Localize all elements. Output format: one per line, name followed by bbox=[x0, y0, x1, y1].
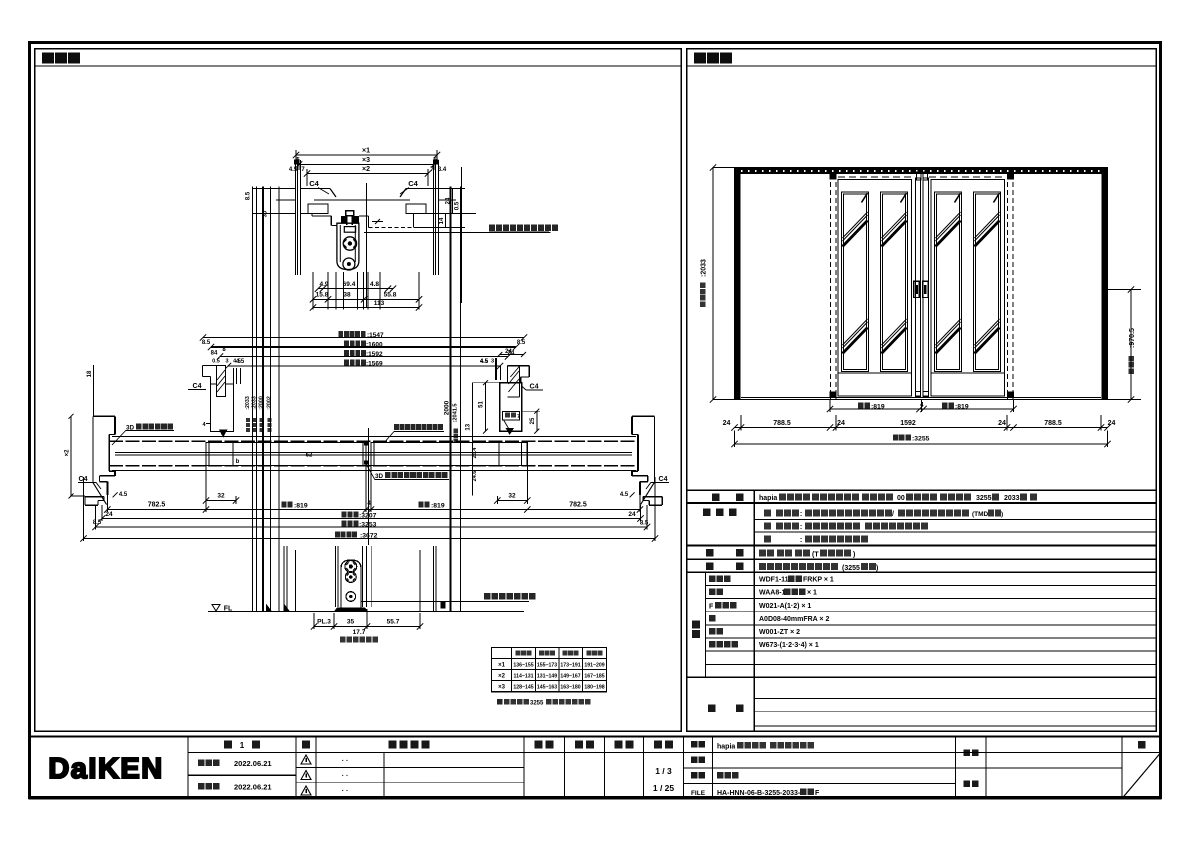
right jamb bottom step bbox=[632, 475, 648, 477]
left outside vertical dim bbox=[70, 416, 72, 496]
plan dim row 1 (leaf widths) bbox=[107, 509, 640, 511]
svg-text:): ) bbox=[876, 565, 878, 572]
warning triangles bbox=[301, 755, 311, 764]
svg-text:×1: ×1 bbox=[498, 663, 506, 669]
spec finish row 3 bbox=[764, 536, 771, 543]
flat rail base (dark) bbox=[334, 608, 368, 612]
spec row label: remarks bbox=[708, 705, 716, 713]
plan dim extension verticals bbox=[106, 495, 108, 512]
plan meeting stile lines bbox=[362, 443, 364, 466]
pocket edge right dashed lines bbox=[1007, 174, 1009, 400]
svg-text::3253: :3253 bbox=[359, 522, 377, 529]
title: approval header bbox=[535, 741, 543, 749]
left door leaf bottom rail line bbox=[838, 372, 912, 374]
floor guide wheel 2 bbox=[345, 572, 356, 583]
svg-text:17.7: 17.7 bbox=[353, 629, 366, 636]
top detail dim line *3 bbox=[299, 164, 434, 166]
adjustment range table bbox=[492, 648, 607, 692]
svg-text:788.5: 788.5 bbox=[1044, 420, 1062, 427]
meeting stile left bbox=[916, 178, 921, 396]
svg-text:32: 32 bbox=[508, 493, 516, 500]
svg-text:180~198: 180~198 bbox=[584, 685, 604, 691]
right mullion vertical dims 51 13 etc bbox=[485, 383, 487, 431]
spec finish row 2 bbox=[764, 523, 771, 530]
svg-text::1592: :1592 bbox=[366, 351, 383, 358]
top detail bottom dim row C bbox=[313, 307, 419, 309]
right height-dimension line bundle bbox=[450, 187, 452, 612]
right door leaf pane top corner slivers bbox=[955, 193, 961, 203]
left door leaf glass pane 1 bbox=[842, 192, 869, 372]
svg-text:): ) bbox=[1001, 511, 1003, 518]
svg-text:15.8: 15.8 bbox=[316, 292, 329, 299]
svg-text:): ) bbox=[853, 552, 855, 559]
upper frame channel ceiling bbox=[314, 199, 410, 201]
svg-text:WAA8-1: WAA8-1 bbox=[759, 590, 786, 597]
svg-text:136~155: 136~155 bbox=[513, 663, 533, 669]
svg-text:4.5: 4.5 bbox=[289, 167, 298, 173]
svg-text:3255: 3255 bbox=[976, 495, 992, 502]
svg-text:· ·: · · bbox=[342, 788, 349, 795]
meeting stile top hardware bbox=[916, 172, 921, 180]
plan dim row 2 (frame center width) bbox=[102, 518, 641, 520]
svg-text:18: 18 bbox=[87, 370, 93, 377]
svg-text:163~180: 163~180 bbox=[560, 685, 580, 691]
roller wheel upper (gear) bbox=[343, 237, 356, 250]
svg-text:2033: 2033 bbox=[1004, 495, 1020, 502]
top detail bottom dim row B bbox=[313, 298, 419, 300]
floor detail door faces bbox=[334, 546, 336, 607]
svg-text:W673-(1·2·3·4) × 1: W673-(1·2·3·4) × 1 bbox=[759, 642, 819, 649]
right mullion mohair leader bbox=[504, 420, 511, 431]
spec table outline and rows bbox=[687, 489, 1157, 491]
svg-text:84: 84 bbox=[211, 351, 218, 357]
title: drawing name value bbox=[717, 772, 724, 779]
width dim label 4 bbox=[344, 360, 349, 366]
title revision mid line bbox=[188, 774, 296, 776]
left door leaf diagonal glazing stripes bbox=[843, 221, 868, 247]
upper frame left chamfer bbox=[330, 189, 336, 198]
svg-text:13: 13 bbox=[465, 423, 471, 430]
spec row label: handle bbox=[706, 549, 714, 557]
svg-text:149~167: 149~167 bbox=[560, 674, 580, 680]
elevation left height dim 2033 bbox=[712, 168, 714, 400]
width dim label 3 bbox=[344, 350, 349, 356]
right panel title 'shomenzu' (front view) bbox=[694, 53, 706, 64]
floor right small mark bbox=[440, 602, 445, 609]
svg-text:2000: 2000 bbox=[444, 400, 451, 415]
frame bottom right of hanger bbox=[359, 215, 369, 217]
width dim label 1 bbox=[338, 331, 343, 337]
svg-text:155~173: 155~173 bbox=[537, 663, 557, 669]
svg-text:8.5: 8.5 bbox=[246, 191, 252, 200]
top detail bottom extension verticals bbox=[312, 272, 314, 310]
svg-text:hapia: hapia bbox=[759, 495, 777, 502]
spec finish row 1 bbox=[764, 510, 771, 517]
table note bbox=[497, 699, 503, 705]
meeting stile right bbox=[923, 178, 928, 396]
svg-text:3: 3 bbox=[225, 359, 228, 365]
title: scale header bbox=[654, 741, 662, 749]
title: ban column header bbox=[302, 741, 310, 749]
svg-text:2022.06.21: 2022.06.21 bbox=[234, 759, 272, 768]
elevation bottom dim row 1 (leaf widths) bbox=[830, 408, 1014, 410]
page cell diagonal bbox=[1122, 752, 1161, 798]
floor line FL bbox=[208, 611, 524, 613]
svg-text:WDF1-11: WDF1-11 bbox=[759, 577, 789, 584]
left door leaf bbox=[838, 180, 912, 397]
svg-text:24: 24 bbox=[628, 511, 636, 518]
top detail left extension lines bbox=[252, 188, 296, 190]
svg-text:×3: ×3 bbox=[498, 685, 506, 691]
svg-text:782.5: 782.5 bbox=[148, 502, 166, 509]
spec spec value bbox=[759, 563, 766, 570]
right view panel frame (front view) bbox=[687, 49, 1157, 732]
svg-text::2033: :2033 bbox=[701, 259, 708, 277]
svg-text:3255: 3255 bbox=[530, 701, 544, 707]
title: revision history header bbox=[389, 741, 397, 749]
svg-text:(TMD: (TMD bbox=[972, 511, 989, 518]
svg-text:128~145: 128~145 bbox=[513, 685, 533, 691]
svg-text:4.5: 4.5 bbox=[620, 492, 629, 498]
hanging rail leader text bbox=[489, 225, 495, 232]
svg-text:· ·: · · bbox=[342, 758, 349, 765]
client section row bbox=[956, 767, 1123, 769]
right mullion mohair pocket bbox=[503, 412, 520, 421]
svg-text:24: 24 bbox=[723, 420, 731, 427]
svg-text:4.5: 4.5 bbox=[233, 359, 241, 365]
right mullion hatch bbox=[508, 379, 519, 392]
svg-text:hapia: hapia bbox=[717, 744, 735, 751]
C4 leader lines top detail bbox=[318, 188, 329, 195]
right jamb board outline bbox=[653, 416, 655, 482]
svg-text:0.5: 0.5 bbox=[455, 201, 461, 210]
top detail bottom dim row A bbox=[318, 288, 393, 290]
upper frame recess left wall bbox=[330, 216, 332, 226]
svg-text:114~131: 114~131 bbox=[513, 674, 533, 680]
left mullion body bbox=[211, 384, 234, 432]
width dim line 2 bbox=[211, 346, 516, 348]
left door leaf outline bbox=[838, 180, 912, 397]
handle left bbox=[914, 281, 920, 297]
svg-text:14: 14 bbox=[439, 217, 445, 224]
svg-text:35: 35 bbox=[347, 619, 355, 626]
svg-text::819: :819 bbox=[294, 503, 308, 510]
svg-text:×3: ×3 bbox=[362, 157, 370, 164]
upper frame left hook foot bbox=[308, 204, 328, 214]
svg-text:PL.3: PL.3 bbox=[317, 619, 331, 626]
title: staff label bbox=[964, 781, 971, 788]
svg-text:113: 113 bbox=[374, 300, 385, 307]
left panel title 'danmenzu' (cross-section) bbox=[42, 53, 54, 64]
right door leaf glass pane 2 bbox=[974, 192, 1001, 372]
pocket edge left dashed lines bbox=[830, 174, 832, 400]
right mullion top extension piece bbox=[506, 366, 508, 383]
right door leaf glass pane 1 bbox=[935, 192, 962, 372]
left door leaf pane top corner slivers bbox=[862, 193, 868, 203]
svg-text:173~191: 173~191 bbox=[560, 663, 580, 669]
right mullion inner vertical bbox=[519, 366, 521, 397]
svg-text:(T: (T bbox=[812, 552, 819, 559]
width dim line 1 (opening effective W) bbox=[203, 337, 524, 339]
top detail wall top marks bbox=[294, 160, 300, 165]
handle right bbox=[923, 281, 929, 297]
floor dim row bbox=[314, 626, 420, 628]
svg-text:/: / bbox=[892, 511, 894, 518]
title: revised date bbox=[198, 783, 205, 790]
meeting stile bottom hardware bbox=[916, 392, 921, 398]
svg-text:4: 4 bbox=[920, 402, 924, 409]
hanger roller housing bbox=[337, 223, 359, 270]
pocket edge end blocks bbox=[830, 174, 837, 180]
title block header row line bbox=[188, 751, 1161, 753]
svg-text:55.8: 55.8 bbox=[384, 292, 397, 299]
left jamb door notch bbox=[109, 434, 115, 436]
svg-text:4.5: 4.5 bbox=[119, 492, 128, 498]
svg-text:×2: ×2 bbox=[498, 674, 506, 680]
svg-text:24: 24 bbox=[1108, 420, 1116, 427]
svg-text::1600: :1600 bbox=[366, 342, 383, 349]
svg-text:F: F bbox=[709, 603, 714, 610]
left view panel frame (cross-section view) bbox=[35, 49, 682, 732]
svg-text::: : bbox=[800, 524, 802, 531]
svg-text:W001-ZT × 2: W001-ZT × 2 bbox=[759, 629, 800, 636]
top detail extension verticals at dims bbox=[295, 150, 297, 161]
svg-text:FILE: FILE bbox=[691, 790, 706, 797]
title: established date bbox=[198, 760, 205, 767]
floor detail left wall lines bbox=[283, 546, 285, 612]
part row labels bbox=[709, 576, 716, 583]
right mullion datum triangle A bbox=[506, 428, 515, 435]
floor guide wheel 3 bbox=[346, 592, 356, 602]
plan dim row 3 (frame outer width) bbox=[96, 526, 648, 528]
right jamb base foot bbox=[643, 496, 662, 498]
svg-text:1 / 25: 1 / 25 bbox=[653, 783, 675, 793]
elevation opening outline bbox=[735, 168, 1108, 400]
svg-text:×2: ×2 bbox=[362, 166, 370, 173]
svg-text:4.5: 4.5 bbox=[480, 359, 488, 365]
svg-text::1569: :1569 bbox=[366, 361, 383, 368]
svg-text:24: 24 bbox=[998, 420, 1006, 427]
right jamb chamfer diagonal bbox=[641, 482, 655, 504]
svg-text:55.7: 55.7 bbox=[387, 619, 400, 626]
svg-text::3672: :3672 bbox=[360, 533, 378, 540]
width dim line 3 bbox=[220, 356, 508, 358]
svg-text::2041.5: :2041.5 bbox=[453, 404, 459, 423]
svg-text:· ·: · · bbox=[342, 773, 349, 780]
svg-text:191~209: 191~209 bbox=[584, 663, 604, 669]
plan dim row 4 (rough opening) bbox=[84, 538, 656, 540]
svg-text:1592: 1592 bbox=[900, 420, 916, 427]
elevation top rail (dark band) bbox=[735, 168, 1108, 175]
svg-text:788.5: 788.5 bbox=[773, 420, 791, 427]
svg-text::2033: :2033 bbox=[245, 396, 251, 410]
svg-text:131~149: 131~149 bbox=[537, 674, 557, 680]
elevation bottom dim row 3 (total width 3255) bbox=[735, 443, 1108, 445]
floor guide wheel 1 bbox=[345, 561, 357, 573]
revision history divider bbox=[383, 752, 385, 798]
title: item number label bbox=[691, 756, 698, 763]
meeting joint blocks bbox=[364, 441, 368, 445]
svg-text:8.5: 8.5 bbox=[640, 521, 649, 527]
spec row label: finish bbox=[703, 509, 711, 517]
spec row label: part numbers bbox=[692, 621, 700, 629]
svg-text:1: 1 bbox=[240, 741, 245, 750]
upper frame bottom profile right bbox=[406, 213, 439, 215]
svg-text:25: 25 bbox=[530, 417, 536, 424]
plan band top hidden dashed line bbox=[109, 440, 638, 442]
plan band bottom hidden dashed line bbox=[109, 465, 638, 467]
title block outline bbox=[30, 737, 1161, 799]
plan band center line pair bbox=[115, 452, 632, 454]
svg-text:25.4: 25.4 bbox=[472, 447, 478, 459]
title: edition header bbox=[224, 741, 232, 749]
right door leaf bottom rail line bbox=[931, 372, 1005, 374]
housing top bracket bbox=[344, 227, 355, 233]
left height-dimension line bundle bbox=[252, 187, 254, 612]
svg-text:DaIKEN: DaIKEN bbox=[48, 753, 163, 785]
left panel header line bbox=[35, 65, 682, 67]
top detail right wall lines bbox=[433, 160, 435, 275]
right mullion dim 25 right side bbox=[536, 411, 538, 431]
small tick on frame bbox=[375, 219, 380, 224]
svg-text:C4: C4 bbox=[530, 384, 539, 391]
elevation right height dim 970.5 bbox=[1130, 290, 1132, 400]
FL symbol bbox=[212, 605, 220, 612]
upper frame bottom profile left bbox=[301, 213, 313, 215]
elevation right wall stile (dark) bbox=[1102, 168, 1108, 400]
svg-text:7: 7 bbox=[517, 414, 520, 420]
svg-text:b: b bbox=[236, 459, 240, 465]
svg-text::819: :819 bbox=[871, 404, 885, 411]
revision history rows bbox=[296, 766, 524, 768]
svg-text::3255: :3255 bbox=[912, 436, 930, 443]
upper frame top edges bbox=[301, 188, 331, 190]
left mullion top hook lines bbox=[203, 365, 217, 367]
name section rows bbox=[684, 767, 956, 769]
svg-text:145~163: 145~163 bbox=[537, 685, 557, 691]
svg-text:8.5: 8.5 bbox=[93, 520, 102, 526]
svg-text:52: 52 bbox=[306, 453, 313, 459]
plan dim 32 right bbox=[497, 500, 527, 502]
svg-text:× 1: × 1 bbox=[807, 590, 817, 597]
plan centerline bbox=[368, 428, 370, 545]
table header labels bbox=[516, 651, 521, 656]
svg-text:3: 3 bbox=[491, 359, 494, 365]
right mullion body bbox=[500, 383, 522, 431]
svg-text:8.5: 8.5 bbox=[202, 340, 211, 346]
svg-text:3.4: 3.4 bbox=[438, 167, 447, 173]
right door leaf bbox=[931, 180, 1005, 397]
svg-text:32: 32 bbox=[217, 493, 225, 500]
upper frame right hook foot bbox=[406, 204, 426, 214]
housing inner walls bbox=[339, 225, 341, 262]
spec handle value bbox=[759, 550, 766, 557]
svg-text:69.4: 69.4 bbox=[343, 281, 356, 288]
top detail right extension lines bbox=[439, 188, 466, 190]
plan band bottom face line bbox=[112, 470, 636, 472]
track dashed line bbox=[838, 176, 914, 178]
spec table column dividers bbox=[753, 490, 755, 731]
svg-text:38: 38 bbox=[343, 292, 351, 299]
svg-text:W021-A(1·2) × 1: W021-A(1·2) × 1 bbox=[759, 603, 811, 610]
left mullion notch bbox=[217, 366, 226, 397]
top detail dim line *2 bbox=[307, 173, 428, 175]
svg-text::970.5: :970.5 bbox=[1129, 328, 1136, 348]
title: subject label bbox=[964, 750, 971, 757]
svg-text:C4: C4 bbox=[309, 179, 319, 188]
svg-text::819: :819 bbox=[431, 503, 445, 510]
top detail centerline bbox=[365, 183, 367, 307]
svg-text::2000: :2000 bbox=[258, 396, 264, 410]
svg-text::2033: :2033 bbox=[251, 396, 257, 410]
svg-text:C4: C4 bbox=[408, 179, 418, 188]
plan left door leaf bbox=[206, 443, 366, 466]
elevation bottom dim row 2 bbox=[735, 427, 1108, 429]
left jamb base foot bbox=[85, 496, 104, 498]
svg-text:24: 24 bbox=[446, 197, 452, 204]
title: page header bbox=[1138, 741, 1146, 749]
hanger dark wings bbox=[341, 216, 346, 223]
left jamb small dim 18 bbox=[93, 365, 95, 416]
svg-text::: : bbox=[800, 511, 802, 518]
right panel header line bbox=[687, 65, 1157, 67]
svg-text:4.9: 4.9 bbox=[319, 281, 328, 288]
hanger bolt shaft bbox=[346, 216, 348, 226]
title: check header bbox=[575, 741, 583, 749]
upper frame right chamfer bbox=[400, 189, 406, 198]
left jamb chamfer diagonal bbox=[93, 482, 107, 504]
svg-text:51: 51 bbox=[479, 401, 485, 408]
width dim label 2 bbox=[344, 341, 349, 347]
right jamb door notch bbox=[632, 434, 638, 436]
svg-text:4.8: 4.8 bbox=[370, 281, 379, 288]
svg-text:0.5: 0.5 bbox=[212, 359, 220, 365]
top detail left wall lines bbox=[295, 160, 297, 275]
width dim line 4 bbox=[228, 365, 500, 367]
svg-text:30: 30 bbox=[263, 210, 269, 217]
right door leaf outline bbox=[931, 180, 1005, 397]
svg-text:782.5: 782.5 bbox=[569, 502, 587, 509]
roller wheel lower bbox=[343, 258, 355, 270]
svg-text:00: 00 bbox=[897, 495, 905, 502]
elevation left wall stile (dark) bbox=[735, 168, 741, 400]
svg-text:×1: ×1 bbox=[362, 148, 370, 155]
plan right door leaf bbox=[371, 443, 527, 466]
svg-text::3207: :3207 bbox=[359, 513, 377, 520]
plan dim 32 left bbox=[206, 500, 236, 502]
svg-text:24: 24 bbox=[105, 511, 113, 518]
svg-text:A0D08-40mmFRA × 2: A0D08-40mmFRA × 2 bbox=[759, 616, 829, 623]
svg-text::: : bbox=[800, 537, 802, 544]
left jamb board outline bbox=[92, 416, 94, 482]
right door leaf diagonal glazing stripes bbox=[936, 221, 961, 247]
hanging rail leader line bbox=[364, 232, 551, 234]
rotated height labels left bundle bbox=[246, 428, 250, 432]
left jamb bottom step bbox=[99, 475, 115, 477]
svg-text:24.6: 24.6 bbox=[472, 471, 478, 482]
left mullion dim 4 arrow bbox=[206, 423, 211, 425]
svg-text::819: :819 bbox=[955, 404, 969, 411]
title: author header bbox=[615, 741, 623, 749]
svg-text:167~185: 167~185 bbox=[584, 674, 604, 680]
title block verticals bbox=[187, 737, 189, 799]
svg-text:(3255: (3255 bbox=[842, 565, 860, 572]
svg-text::2002: :2002 bbox=[266, 396, 272, 410]
svg-text:FRKP × 1: FRKP × 1 bbox=[803, 577, 834, 584]
floor detail right wall lines bbox=[419, 550, 421, 612]
elevation inner bottom line bbox=[741, 397, 1101, 399]
floor dim note (effective) bbox=[340, 637, 346, 643]
